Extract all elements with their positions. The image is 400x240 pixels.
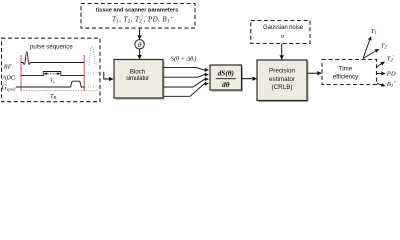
svg-text:ADC: ADC — [1, 75, 15, 82]
wire: Bloch output 1 to derivative block — [164, 67, 209, 70]
wire: output arrow PD — [377, 73, 386, 75]
box: pulse sequence (dashed) — [2, 38, 101, 101]
svg-text:(CRLB): (CRLB) — [272, 84, 293, 91]
svg-text:T2: T2 — [381, 43, 388, 51]
svg-text:tissue and scanner parameters: tissue and scanner parameters — [96, 8, 178, 14]
wire: pulse sequence to Bloch simulator — [104, 72, 113, 79]
svg-text:dS(θ): dS(θ) — [218, 69, 234, 78]
svg-text:θ: θ — [138, 41, 142, 49]
svg-text:efficiency: efficiency — [333, 74, 359, 81]
wire: output arrow T1 — [363, 37, 371, 59]
svg-text:Gaussian noise: Gaussian noise — [263, 25, 304, 31]
svg-text:Time: Time — [339, 66, 353, 73]
ADC dotted continuation — [85, 72, 100, 74]
red TR marker line 2 — [83, 55, 85, 91]
Gspoil dotted continuation — [85, 86, 99, 88]
svg-text:S(θ + Δθi): S(θ + Δθi) — [171, 55, 197, 62]
svg-text:T2′: T2′ — [387, 55, 395, 63]
svg-text:T1: T1 — [371, 28, 377, 36]
box: tissue and scanner parameters (dashed) — [81, 4, 195, 29]
Ts double arrow — [44, 73, 60, 75]
wire: precision estimator to time efficiency — [308, 72, 322, 74]
ADC waveform: baseline with sampling gate — [21, 72, 84, 76]
block: derivative dS/dtheta — [210, 65, 243, 92]
RF waveform: sinc pulse and baseline — [21, 52, 84, 64]
wire: parameters box to theta node — [139, 28, 141, 39]
svg-text:Gspoil: Gspoil — [2, 85, 17, 92]
box: Gaussian noise (dashed) — [251, 21, 310, 44]
block: precision estimator (CRLB) — [257, 60, 309, 102]
red dotted TR span line — [21, 90, 99, 92]
svg-text:RF: RF — [3, 64, 13, 71]
wire: output arrow T2' — [377, 62, 385, 67]
svg-text:TR: TR — [50, 93, 56, 100]
svg-text:estimator: estimator — [269, 76, 295, 83]
wire: Bloch output 3 to derivative block — [164, 79, 209, 87]
svg-text:simulator: simulator — [126, 76, 149, 82]
red TR marker line 1 — [20, 55, 22, 91]
svg-text:Bloch: Bloch — [130, 68, 145, 75]
block: Bloch simulator — [114, 60, 165, 100]
wire: output arrow B1+ — [377, 83, 385, 86]
Gspoil waveform: baseline with spoiler trapezoid — [16, 81, 84, 87]
svg-text:B1+: B1+ — [387, 81, 397, 89]
svg-text:dθ: dθ — [222, 80, 230, 89]
wire: derivative block to precision estimator — [242, 78, 257, 80]
box: time efficiency (dashed) — [322, 60, 377, 85]
node theta — [135, 40, 144, 50]
svg-text:PD: PD — [386, 71, 396, 78]
svg-text:T1, T2, T2′, PD, B1+: T1, T2, T2′, PD, B1+ — [112, 15, 174, 24]
svg-text:pulse sequence: pulse sequence — [30, 44, 73, 51]
svg-text:Precision: Precision — [269, 67, 295, 74]
wire: output arrow T2 — [363, 49, 379, 58]
wire: Bloch output 4 to derivative block — [164, 84, 209, 97]
wire: Bloch output 2 to derivative block — [164, 75, 209, 78]
wire: Gaussian noise to precision estimator — [281, 44, 283, 59]
wire: theta node to Bloch simulator — [139, 49, 141, 59]
RF dotted sinc (next TR) — [87, 46, 100, 64]
